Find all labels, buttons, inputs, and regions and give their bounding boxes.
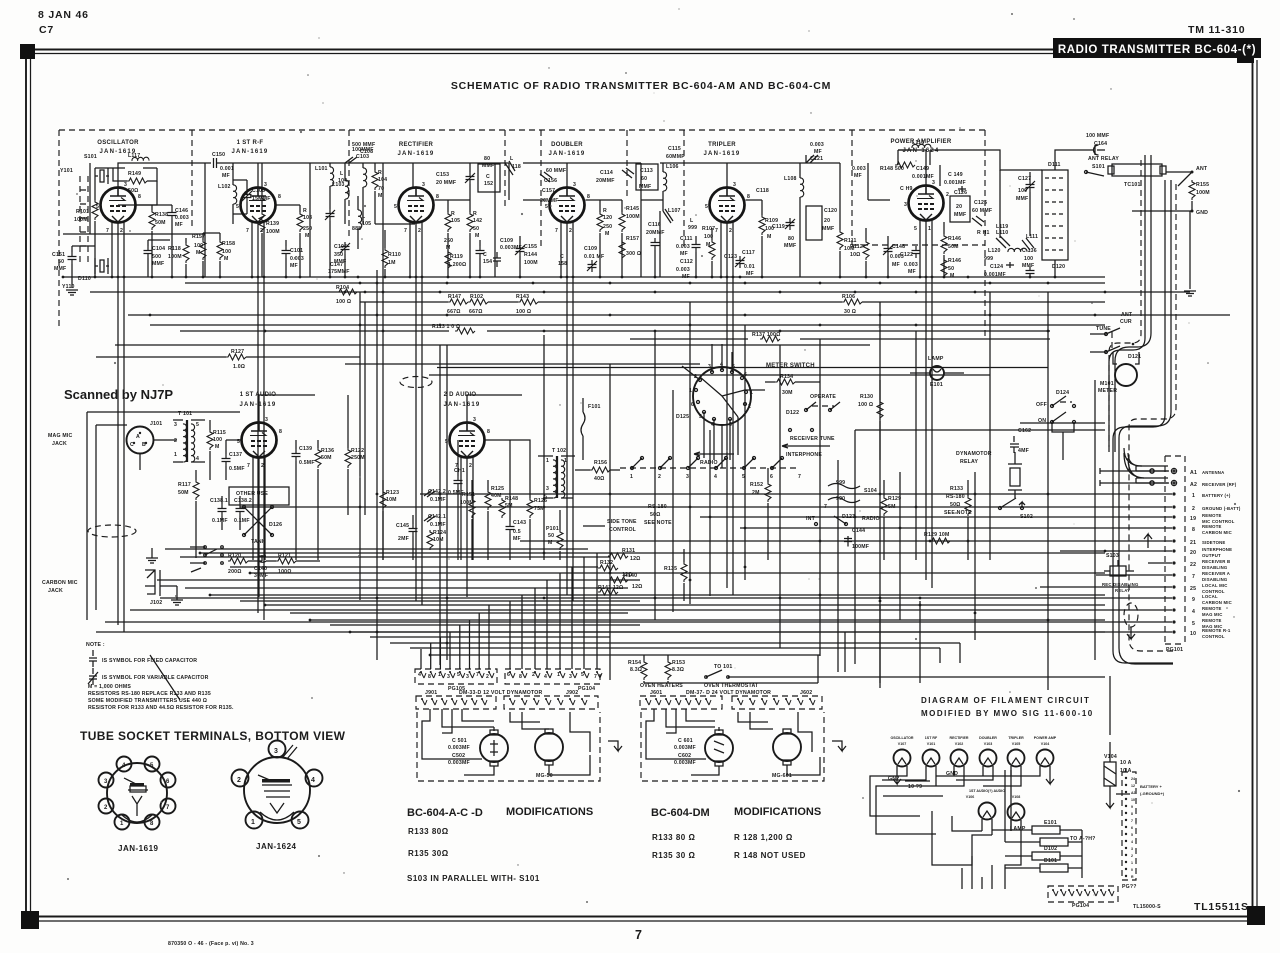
- svg-text:D126: D126: [269, 522, 282, 528]
- svg-text:INTERPHONE: INTERPHONE: [1202, 547, 1232, 552]
- svg-text:R133 80 Ω: R133 80 Ω: [652, 833, 695, 842]
- tube V101 1st r-f: [241, 188, 276, 223]
- resistor R157b: [619, 240, 625, 260]
- svg-text:MMF: MMF: [1016, 196, 1028, 202]
- svg-text:1: 1: [630, 474, 633, 480]
- capacitor C151 50MMF: [68, 252, 77, 264]
- svg-text:J601: J601: [650, 690, 662, 696]
- svg-text:5: 5: [742, 474, 745, 480]
- svg-text:TM 11-310: TM 11-310: [1188, 24, 1245, 36]
- resistor R124 10M: [427, 530, 433, 550]
- resistor R134 30M: [775, 379, 795, 385]
- svg-text:10: 10: [1131, 798, 1135, 802]
- ground 12v: [608, 741, 622, 751]
- svg-text:3: 3: [447, 674, 450, 680]
- svg-text:V105: V105: [1012, 742, 1020, 746]
- chassis dashed boundary left: [58, 130, 60, 330]
- svg-text:10: 10: [1190, 631, 1196, 637]
- svg-text:8: 8: [519, 674, 522, 680]
- svg-text:6: 6: [166, 779, 170, 785]
- svg-text:500 MMF: 500 MMF: [352, 142, 375, 148]
- svg-text:R107: R107: [702, 226, 715, 232]
- svg-text:10M: 10M: [386, 497, 397, 503]
- wire osc cathode drops: [112, 222, 124, 632]
- svg-text:R155: R155: [1196, 182, 1209, 188]
- svg-text:60MMF: 60MMF: [666, 154, 685, 160]
- corner square bottom-right: [1247, 906, 1265, 925]
- svg-text:R139: R139: [266, 221, 279, 227]
- svg-text:R121: R121: [278, 553, 291, 559]
- svg-text:MF: MF: [854, 173, 862, 179]
- svg-text:JAN-1619: JAN-1619: [118, 844, 159, 853]
- svg-text:C139: C139: [299, 446, 312, 452]
- svg-text:R: R: [303, 208, 307, 214]
- svg-text:3: 3: [932, 180, 935, 186]
- svg-text:0.003: 0.003: [290, 256, 304, 262]
- svg-text:2: 2: [569, 228, 572, 234]
- interphone switch contact row (dash-dot): [632, 458, 782, 468]
- resistor R126 75M: [527, 498, 533, 518]
- svg-text:200Ω: 200Ω: [228, 569, 242, 575]
- svg-text:0: 0: [1131, 868, 1133, 872]
- resistor R137 100: [760, 336, 780, 342]
- svg-text:R158: R158: [222, 241, 235, 247]
- filament tube V104: [1037, 750, 1054, 767]
- terminal 1: [1172, 492, 1175, 495]
- small boxes chain: [1032, 826, 1060, 834]
- svg-text:R106: R106: [842, 294, 855, 300]
- svg-text:BC-604-DM: BC-604-DM: [651, 807, 710, 819]
- svg-text:8: 8: [138, 194, 141, 200]
- other use box: [229, 487, 289, 505]
- dashed plug 2d audio: [400, 377, 432, 388]
- svg-text:4MF: 4MF: [1018, 448, 1029, 454]
- svg-text:50: 50: [548, 533, 554, 539]
- svg-text:SOME MODIFIED TRANSMITTERS USE: SOME MODIFIED TRANSMITTERS USE 440 Ω: [88, 698, 207, 704]
- svg-text:R148: R148: [505, 496, 518, 502]
- svg-text:2: 2: [1192, 506, 1195, 512]
- svg-text:OVEN HEATERS: OVEN HEATERS: [640, 683, 683, 689]
- svg-text:8: 8: [279, 429, 282, 435]
- svg-text:19: 19: [1190, 516, 1196, 522]
- coil L107: [663, 209, 673, 223]
- svg-text:R135 30 Ω: R135 30 Ω: [652, 851, 695, 860]
- svg-text:100: 100: [1024, 256, 1033, 262]
- svg-text:3: 3: [569, 674, 572, 680]
- svg-text:TUNE: TUNE: [1096, 326, 1111, 332]
- terminal 19: [1172, 515, 1175, 518]
- svg-text:R: R: [378, 170, 382, 176]
- box chain wires: [992, 770, 1082, 868]
- svg-text:5: 5: [1192, 621, 1195, 627]
- svg-text:OSCILLATOR: OSCILLATOR: [97, 140, 139, 146]
- meter switch rotary D125: [693, 367, 751, 425]
- resistor R109 100M: [759, 215, 765, 235]
- svg-text:C H9: C H9: [900, 186, 913, 192]
- svg-text:C123: C123: [724, 254, 737, 260]
- svg-text:ANT: ANT: [1121, 312, 1133, 318]
- svg-text:30 Ω: 30 Ω: [844, 309, 856, 315]
- svg-text:C149: C149: [916, 166, 929, 172]
- svg-text:C109: C109: [500, 238, 513, 244]
- top border double line: [35, 49, 1056, 51]
- svg-text:SIDE TONE: SIDE TONE: [607, 519, 637, 525]
- svg-text:R: R: [473, 211, 477, 217]
- right terminal strip dashed box PG101: [1165, 456, 1185, 644]
- svg-text:158: 158: [558, 261, 567, 267]
- resistor R151 100M: [469, 498, 475, 518]
- svg-text:R129 10M: R129 10M: [924, 532, 950, 538]
- wire rf1 plate: [257, 163, 259, 188]
- svg-text:GND: GND: [1196, 210, 1208, 216]
- svg-text:5: 5: [394, 204, 397, 210]
- connector PG105 dashed: [415, 669, 497, 684]
- svg-text:R138: R138: [155, 212, 168, 218]
- svg-text:4: 4: [196, 456, 199, 462]
- svg-text:MAG MIC: MAG MIC: [48, 433, 73, 439]
- extra stage wires: [90, 155, 1055, 277]
- svg-text:1: 1: [1131, 861, 1133, 865]
- svg-text:MF: MF: [175, 222, 183, 228]
- svg-text:REMOTE: REMOTE: [1202, 618, 1222, 623]
- svg-text:500: 500: [152, 254, 161, 260]
- svg-text:REMOTE: REMOTE: [1202, 513, 1222, 518]
- svg-text:6: 6: [691, 402, 694, 408]
- svg-text:50M: 50M: [155, 220, 166, 226]
- svg-text:50M: 50M: [178, 490, 189, 496]
- svg-text:3: 3: [265, 417, 268, 423]
- coil L120: [1008, 248, 1027, 252]
- svg-text:2: 2: [260, 228, 263, 234]
- resistor R118 100M: [183, 243, 189, 263]
- svg-text:0.01 MF: 0.01 MF: [584, 254, 604, 260]
- svg-text:S101: S101: [1092, 164, 1105, 170]
- svg-text:0.1MF: 0.1MF: [430, 497, 446, 503]
- S104 switch group: [828, 484, 860, 489]
- svg-text:C146: C146: [175, 208, 188, 214]
- svg-text:M: M: [767, 234, 772, 240]
- svg-text:2: 2: [418, 228, 421, 234]
- dynamotor MG-601 motor: [773, 733, 801, 761]
- stage divider dashed: [540, 130, 542, 250]
- svg-text:R101: R101: [76, 209, 89, 215]
- svg-text:GROUND (-BATT): GROUND (-BATT): [1202, 506, 1241, 511]
- wire bus y325: [150, 324, 1105, 326]
- svg-text:M: M: [706, 242, 711, 248]
- terminal 5: [1172, 620, 1175, 623]
- filament bottom connector: [1048, 886, 1118, 902]
- antenna feed lines into strip: [1100, 468, 1169, 486]
- svg-text:0.003: 0.003: [810, 142, 824, 148]
- svg-text:104: 104: [338, 178, 347, 184]
- svg-text:REMOTE: REMOTE: [1202, 606, 1222, 611]
- svg-text:REC DISABLING: REC DISABLING: [1102, 582, 1139, 587]
- svg-text:100: 100: [222, 249, 231, 255]
- socket JAN-1624: [232, 741, 323, 829]
- svg-text:100 Ω: 100 Ω: [516, 309, 531, 315]
- svg-text:MMF: MMF: [54, 266, 66, 272]
- svg-text:5: 5: [457, 672, 460, 678]
- svg-text:999: 999: [688, 225, 697, 231]
- svg-text:R129: R129: [888, 496, 901, 502]
- svg-text:4: 4: [544, 674, 547, 680]
- wire bus y339 with R133: [630, 338, 1050, 340]
- svg-text:C155: C155: [524, 244, 537, 250]
- svg-text:C138.1: C138.1: [210, 498, 228, 504]
- svg-text:50: 50: [473, 226, 479, 232]
- resistor P101 50M: [557, 530, 563, 550]
- svg-text:8: 8: [428, 674, 431, 680]
- stage divider dashed osc/rf: [191, 130, 193, 230]
- svg-text:L: L: [690, 218, 694, 224]
- svg-text:870350 O - 46 - (Face p. vi) N: 870350 O - 46 - (Face p. vi) No. 3: [168, 941, 254, 947]
- svg-text:A2: A2: [1190, 482, 1197, 488]
- capacitor C139 0.5MF: [292, 449, 301, 461]
- svg-text:20 MMF: 20 MMF: [436, 180, 456, 186]
- crystal Y110: [95, 258, 109, 274]
- dashed cable oval: [1124, 603, 1138, 627]
- svg-text:RESISTORS RS-180 REPLACE R133: RESISTORS RS-180 REPLACE R133 AND R135: [88, 691, 211, 697]
- svg-text:103: 103: [303, 215, 312, 221]
- resistor R129 10M on line: [930, 538, 950, 544]
- svg-text:100: 100: [704, 234, 713, 240]
- stage divider dashed: [984, 130, 986, 340]
- svg-text:2: 2: [469, 463, 472, 469]
- svg-text:RECEIVER (RF): RECEIVER (RF): [1202, 482, 1237, 487]
- svg-text:6: 6: [1131, 826, 1133, 830]
- resistor R121 100: [276, 558, 296, 564]
- svg-text:C113: C113: [640, 168, 653, 174]
- svg-text:TRIPLER: TRIPLER: [708, 142, 736, 148]
- svg-text:MG-601: MG-601: [772, 773, 792, 779]
- svg-text:3: 3: [686, 474, 689, 480]
- svg-text:350: 350: [334, 252, 343, 258]
- coil L102: [233, 185, 237, 204]
- svg-text:0.001MF: 0.001MF: [912, 174, 934, 180]
- svg-text:R119: R119: [450, 254, 463, 260]
- capacitor C104 500MMF: [144, 246, 153, 258]
- corner square bottom-left: [21, 911, 39, 929]
- resistor R125 40M: [485, 490, 491, 510]
- svg-text:GND: GND: [946, 771, 958, 777]
- svg-text:300 Ω: 300 Ω: [626, 251, 641, 257]
- switch D126 tank cross: [244, 507, 272, 535]
- svg-text:C119: C119: [772, 224, 785, 230]
- coil L118 stub: [505, 161, 515, 175]
- svg-text:0.5: 0.5: [513, 529, 521, 535]
- svg-text:MMF: MMF: [152, 261, 164, 267]
- svg-text:4: 4: [122, 763, 126, 769]
- svg-text:LAMP: LAMP: [1010, 826, 1026, 832]
- svg-text:100M: 100M: [626, 214, 640, 220]
- svg-text:2: 2: [237, 777, 241, 784]
- mag mic jack J101: [127, 427, 154, 454]
- svg-text:V107: V107: [898, 742, 906, 746]
- svg-text:0.003: 0.003: [852, 166, 866, 172]
- capacitor C101 0.003MF: [282, 246, 291, 258]
- leader diagonal note: [150, 655, 180, 700]
- svg-text:R133 80Ω: R133 80Ω: [408, 827, 449, 836]
- wires meter switch top: [682, 344, 765, 390]
- resistor R154 8.3: [641, 660, 647, 680]
- stage divider dashed: [348, 130, 350, 240]
- svg-text:22: 22: [1190, 562, 1196, 568]
- terminal 10: [1172, 630, 1175, 633]
- svg-text:100 Ω: 100 Ω: [858, 402, 873, 408]
- terminal 8: [1172, 526, 1175, 529]
- svg-text:100Ω: 100Ω: [278, 569, 292, 575]
- resistor R115 100M: [207, 430, 213, 450]
- svg-text:C 149: C 149: [948, 172, 963, 178]
- svg-text:1: 1: [689, 388, 692, 394]
- svg-text:1M: 1M: [388, 260, 396, 266]
- svg-text:105: 105: [451, 218, 460, 224]
- svg-text:7: 7: [594, 674, 597, 680]
- svg-text:5: 5: [297, 819, 301, 826]
- coil L110: [996, 236, 1010, 248]
- meter switch bottom drops: [704, 412, 738, 468]
- coax into A1 A2 terminals: [1136, 466, 1168, 483]
- filament terminal strip dashed: [1122, 772, 1136, 880]
- terminal 25: [1172, 585, 1175, 588]
- capacitor C140 30MF: [258, 555, 270, 561]
- wire long vertical drops left: [360, 163, 447, 665]
- tube V107 oscillator: [101, 188, 136, 223]
- radio meter M101: [1115, 364, 1137, 386]
- svg-text:POWER AMP: POWER AMP: [1034, 736, 1057, 740]
- resistor R136 50M: [315, 448, 321, 468]
- resistor R122 250M: [345, 448, 351, 468]
- svg-text:0.1MF: 0.1MF: [234, 518, 250, 524]
- svg-text:5: 5: [545, 204, 548, 210]
- svg-text:RESISTOR FOR R133 AND 44.5Ω RE: RESISTOR FOR R133 AND 44.5Ω RESISTOR FOR…: [88, 705, 234, 711]
- svg-text:2: 2: [729, 228, 732, 234]
- svg-text:MF: MF: [746, 271, 754, 277]
- svg-text:DYNAMOTOR: DYNAMOTOR: [956, 451, 992, 457]
- svg-text:C: C: [560, 254, 564, 260]
- svg-text:M: M: [215, 444, 220, 450]
- svg-text:Scanned by NJ7P: Scanned by NJ7P: [64, 387, 173, 402]
- resistor R113 10: [455, 328, 475, 334]
- svg-text:V106: V106: [966, 795, 974, 799]
- svg-text:R140: R140: [624, 573, 637, 579]
- svg-text:LOCAL MIC: LOCAL MIC: [1202, 583, 1228, 588]
- svg-text:R120: R120: [228, 553, 241, 559]
- svg-text:MODIFICATIONS: MODIFICATIONS: [506, 806, 593, 818]
- svg-text:8: 8: [587, 194, 590, 200]
- 24v wires: [646, 709, 820, 775]
- svg-text:OUTPUT: OUTPUT: [1202, 553, 1221, 558]
- svg-text:154: 154: [483, 259, 492, 265]
- ground arrow at relay: [1144, 534, 1152, 548]
- filament tube V107: [894, 750, 911, 767]
- svg-text:R146: R146: [948, 236, 961, 242]
- 12v wires: [422, 709, 590, 775]
- svg-text:NOTE :: NOTE :: [86, 642, 105, 648]
- svg-text:C112: C112: [680, 259, 693, 265]
- svg-text:R: R: [451, 211, 455, 217]
- svg-text:T 101: T 101: [178, 411, 192, 417]
- dynamotor MG-601 armature: [705, 734, 733, 762]
- wire bus y315: [128, 314, 1230, 316]
- socket JAN-1624 internals: [258, 745, 297, 820]
- resistor R107 100M: [709, 240, 715, 260]
- svg-text:8: 8: [1192, 527, 1195, 533]
- resistor R143 100: [518, 299, 538, 305]
- resistor R146b 50: [941, 258, 947, 278]
- svg-text:CARBON MIC: CARBON MIC: [1202, 600, 1232, 605]
- svg-text:CARBON MIC: CARBON MIC: [42, 580, 78, 586]
- dynamotor MG-50 armature left: [480, 734, 508, 762]
- svg-text:4: 4: [1192, 609, 1195, 615]
- svg-text:1: 1: [546, 458, 549, 464]
- svg-text:L108: L108: [784, 176, 797, 182]
- svg-text:20: 20: [824, 218, 830, 224]
- svg-text:C 136: C 136: [1022, 248, 1037, 254]
- svg-text:9: 9: [1131, 805, 1133, 809]
- svg-text:RECEIVER TUNE: RECEIVER TUNE: [790, 436, 835, 442]
- svg-text:C144: C144: [852, 528, 865, 534]
- right side drops: [1082, 676, 1126, 878]
- ground mic area: [146, 558, 158, 563]
- svg-text:1ST RF: 1ST RF: [925, 736, 938, 740]
- svg-text:L119: L119: [996, 224, 1008, 230]
- svg-text:C124: C124: [990, 264, 1003, 270]
- svg-text:RELAY: RELAY: [960, 459, 978, 465]
- wire bus y292: [90, 291, 1190, 293]
- coil L106: [663, 172, 667, 191]
- svg-text:3: 3: [104, 779, 108, 785]
- svg-text:J602: J602: [800, 690, 812, 696]
- svg-text:R127: R127: [231, 349, 244, 355]
- capacitor C143 0.5MF: [506, 522, 515, 534]
- svg-text:10Ω: 10Ω: [850, 252, 861, 258]
- svg-text:50Ω: 50Ω: [650, 512, 661, 518]
- svg-text:8 JAN 46: 8 JAN 46: [38, 9, 89, 21]
- resistor R104 100 on y292: [337, 289, 357, 295]
- capacitor C105 15MMF variable: [242, 190, 252, 202]
- svg-text:C145: C145: [396, 523, 409, 529]
- svg-text:R125: R125: [491, 486, 504, 492]
- svg-text:RECEIVER A: RECEIVER A: [1202, 571, 1230, 576]
- svg-text:0.5MF: 0.5MF: [229, 466, 245, 472]
- svg-text:R133: R133: [950, 486, 963, 492]
- svg-text:METER SWITCH: METER SWITCH: [766, 363, 815, 369]
- stage divider dashed: [683, 130, 685, 250]
- svg-text:M: M: [950, 273, 955, 279]
- svg-text:RECTIFIER: RECTIFIER: [399, 142, 434, 148]
- svg-text:5: 5: [581, 672, 584, 678]
- svg-text:100 MMF: 100 MMF: [1086, 133, 1109, 139]
- svg-text:12: 12: [1131, 784, 1135, 788]
- switch contacts small: [204, 546, 207, 549]
- svg-text:D124: D124: [1056, 390, 1069, 396]
- ground 24v: [832, 741, 846, 751]
- svg-text:R104: R104: [336, 285, 349, 291]
- svg-text:C118: C118: [756, 188, 769, 194]
- svg-text:METER: METER: [1098, 388, 1117, 394]
- svg-text:1: 1: [750, 390, 753, 396]
- svg-text:8: 8: [487, 429, 490, 435]
- svg-text:175MMF: 175MMF: [328, 269, 350, 275]
- svg-text:R134: R134: [780, 374, 793, 380]
- svg-text:D120: D120: [1052, 264, 1065, 270]
- svg-text:RELAY: RELAY: [1115, 588, 1130, 593]
- resistor R153 8.3: [665, 660, 671, 680]
- svg-text:BATTERY (+): BATTERY (+): [1202, 493, 1231, 498]
- dashed plug oval: [88, 525, 136, 537]
- resistor R152 2M: [765, 482, 771, 502]
